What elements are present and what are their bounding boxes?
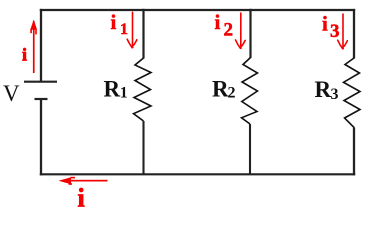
battery V: top plate (long, positive) [24, 81, 57, 83]
wire: right vertical from top-right corner down to R3 [353, 9, 355, 59]
label i2 [215, 10, 234, 41]
svg-text:R: R [315, 77, 332, 102]
svg-text:i: i [111, 10, 117, 34]
wire: branch 2 vertical from R2 down to bottom bus [249, 124, 251, 174]
svg-text:3: 3 [330, 21, 340, 42]
battery V: bottom plate (short, negative) [35, 98, 48, 100]
svg-text:1: 1 [120, 21, 128, 38]
current arrow i (source branch, pointing up) [30, 20, 37, 74]
wire: branch 2 vertical drop from top bus to R2 [249, 9, 251, 58]
wire: top bus from left corner to right corner [40, 9, 355, 11]
resistor R1 zigzag [134, 58, 152, 121]
wire: right vertical from R3 down to bottom-right corner [353, 128, 355, 175]
svg-text:i: i [22, 44, 27, 64]
current arrow i2 (pointing down into R2) [236, 13, 246, 49]
wire: bottom bus from left corner to right corner [40, 173, 355, 175]
svg-text:i: i [78, 184, 85, 208]
resistor R3 zigzag [344, 58, 361, 128]
wire: left vertical from battery bottom plate to bottom-left corner [40, 99, 42, 175]
label i1 [111, 10, 129, 38]
wire: branch 1 vertical drop from top bus to R1 [142, 9, 144, 59]
wire: left vertical from top corner down to battery top plate [40, 9, 42, 82]
svg-text:R: R [104, 77, 121, 102]
label R2 [212, 77, 236, 102]
current arrow i (return path, pointing left along bottom) [59, 177, 108, 185]
svg-text:R: R [212, 77, 229, 102]
svg-text:2: 2 [228, 85, 236, 102]
label R1 [104, 77, 128, 102]
svg-text:i: i [322, 12, 328, 36]
svg-text:i: i [215, 10, 221, 34]
svg-text:3: 3 [331, 86, 339, 103]
wire: branch 1 vertical from R1 down to bottom bus [142, 121, 144, 174]
resistor R2 zigzag [242, 58, 258, 125]
svg-text:1: 1 [120, 85, 128, 102]
svg-text:V: V [3, 81, 20, 106]
current arrow i3 (pointing down into R3) [338, 14, 348, 49]
current arrow i1 (pointing down into R1) [127, 12, 137, 48]
label i3 [322, 12, 340, 42]
label R3 [315, 77, 339, 103]
svg-text:2: 2 [224, 20, 234, 41]
